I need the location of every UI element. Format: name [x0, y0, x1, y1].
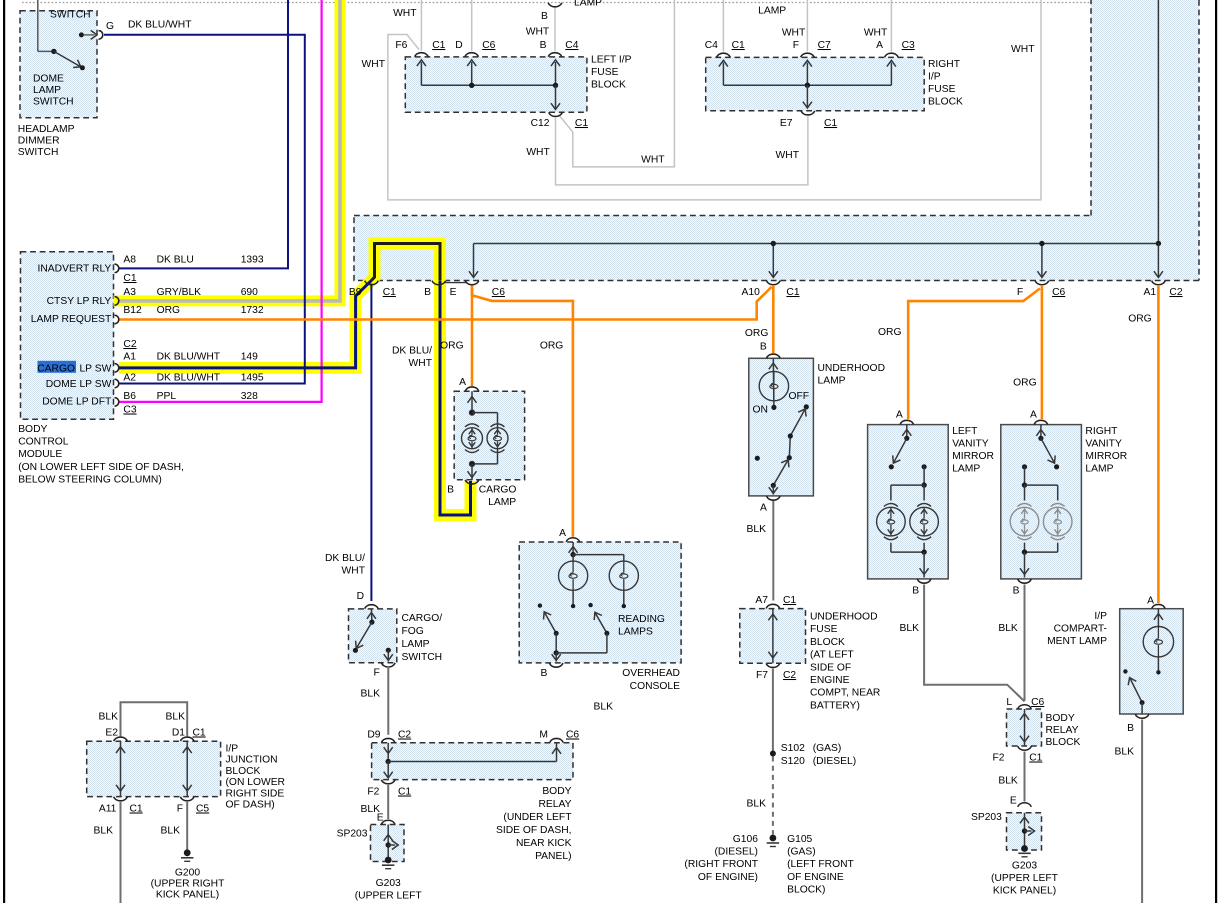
wire BLK left vanity B to body relay block	[924, 585, 1024, 702]
SP203 splice box left	[371, 825, 405, 862]
body relay internals	[384, 743, 561, 778]
I/P compartment lamp internals	[1123, 609, 1163, 714]
svg-text:ORG: ORG	[745, 328, 768, 339]
svg-text:A1: A1	[123, 352, 136, 363]
label OVERHEAD CONSOLE	[622, 668, 680, 692]
svg-text:E: E	[1010, 796, 1017, 807]
svg-text:LAMP: LAMP	[33, 85, 61, 96]
svg-text:A: A	[760, 503, 767, 514]
underhood fuse block internals	[768, 609, 777, 664]
pin D of cargo/fog lamp switch	[357, 591, 379, 609]
svg-text:CONSOLE: CONSOLE	[630, 681, 680, 692]
pin C4 of right fuse block	[717, 53, 731, 57]
SP203 left splice internals	[384, 825, 399, 861]
label UNDERHOOD FUSE BLOCK location	[810, 612, 880, 712]
svg-text:INADVERT RLY: INADVERT RLY	[37, 264, 111, 275]
svg-text:ORG: ORG	[878, 327, 901, 338]
pin A of cargo lamp	[459, 377, 479, 391]
svg-text:SP203: SP203	[971, 812, 1002, 823]
label RIGHT VANITY MIRROR LAMP	[1085, 426, 1127, 475]
svg-text:E: E	[450, 287, 457, 298]
underhood fuse block box	[740, 609, 806, 664]
body relay block internals	[1020, 709, 1029, 746]
svg-text:I/P: I/P	[1094, 611, 1107, 622]
labels I/P harness pins	[349, 287, 1183, 298]
lamp bulb right vanity mirror lamp 2	[1043, 504, 1072, 540]
wire BLK junction block A11 down (off page)	[120, 802, 122, 903]
highlight CARGO lamp circuit (BCM to B9)	[119, 280, 372, 368]
svg-text:ORG: ORG	[440, 341, 463, 352]
svg-text:B12: B12	[123, 305, 142, 316]
svg-text:FOG: FOG	[402, 626, 424, 637]
svg-text:BODY: BODY	[542, 786, 571, 797]
wire DK BLU/WHT 1495 dome lamp switch G to BCM A2	[104, 35, 305, 384]
svg-text:DIMMER: DIMMER	[18, 136, 60, 147]
svg-text:B6: B6	[123, 391, 136, 402]
wire WHT to left fuse block D (from above)	[471, 0, 473, 51]
svg-text:LAMPS: LAMPS	[618, 627, 653, 638]
label BODY RELAY BLOCK	[1046, 713, 1081, 748]
svg-text:D1: D1	[172, 728, 185, 739]
svg-text:LAMP: LAMP	[1085, 464, 1113, 475]
svg-text:BLOCK: BLOCK	[810, 637, 845, 648]
svg-text:F2: F2	[367, 787, 379, 798]
wire WHT to right fuse block F (from above)	[806, 0, 808, 52]
label G105 (GAS) (LEFT FRONT OF ENGINE BLOCK)	[787, 834, 854, 895]
svg-text:BELOW STEERING COLUMN): BELOW STEERING COLUMN)	[18, 474, 162, 485]
svg-text:C6: C6	[1031, 697, 1044, 708]
svg-text:BLK: BLK	[361, 689, 381, 700]
svg-text:A: A	[896, 410, 903, 421]
svg-text:C1: C1	[432, 40, 445, 51]
svg-text:WHT: WHT	[864, 28, 888, 39]
pin A11 of I/P junction block	[99, 797, 143, 815]
pin A of right fuse block	[885, 53, 899, 57]
pin E of SP203 right	[1010, 796, 1031, 807]
svg-text:L: L	[1006, 697, 1012, 708]
svg-text:FUSE: FUSE	[591, 67, 619, 78]
svg-text:RELAY: RELAY	[538, 799, 571, 810]
svg-text:B: B	[540, 40, 547, 51]
svg-text:M: M	[539, 730, 548, 741]
svg-text:BLOCK): BLOCK)	[787, 884, 825, 895]
svg-text:RELAY: RELAY	[1046, 725, 1079, 736]
svg-text:E: E	[377, 813, 384, 824]
pin E of SP203 left	[377, 813, 395, 825]
svg-text:C1: C1	[783, 595, 796, 606]
svg-text:UNDERHOOD: UNDERHOOD	[818, 363, 886, 374]
svg-text:1393: 1393	[241, 255, 264, 266]
ground G106/G105	[767, 835, 779, 847]
pin C12 of left fuse block	[549, 112, 563, 116]
svg-text:I/P: I/P	[226, 744, 239, 755]
svg-text:(ON LOWER: (ON LOWER	[226, 777, 286, 788]
svg-text:C1: C1	[193, 728, 206, 739]
svg-text:WHT: WHT	[1011, 44, 1035, 55]
pin A7 of underhood fuse block	[755, 595, 796, 608]
svg-text:DOME LP SW: DOME LP SW	[46, 379, 112, 390]
labels left fuse block pins	[395, 40, 588, 129]
pin A10 of I/P harness	[767, 281, 781, 285]
wire BLK underhood fuse block F7 to splice	[772, 669, 774, 754]
wire BLK underhood lamp A to fuse block A7	[772, 501, 774, 601]
svg-text:OFF: OFF	[789, 391, 810, 402]
svg-text:A11: A11	[99, 804, 117, 815]
I/P junction block box	[87, 741, 221, 796]
svg-text:F6: F6	[395, 40, 407, 51]
svg-text:LAMP: LAMP	[952, 464, 980, 475]
svg-text:BODY: BODY	[18, 424, 47, 435]
svg-text:F: F	[793, 40, 799, 51]
svg-text:SWITCH: SWITCH	[402, 652, 443, 663]
svg-text:C5: C5	[196, 804, 209, 815]
svg-text:D: D	[455, 40, 462, 51]
pin A of right vanity mirror lamp	[1030, 410, 1048, 425]
svg-text:C6: C6	[492, 287, 505, 298]
label DK BLU/WHT (B9 drop)	[325, 553, 366, 577]
wire BLK I/P compartment lamp B down	[1141, 720, 1143, 903]
label RIGHT I/P FUSE BLOCK	[928, 59, 963, 108]
svg-text:C1: C1	[1029, 753, 1042, 764]
wire WHT to left fuse block F6 (from above)	[420, 0, 422, 51]
svg-text:A8: A8	[123, 255, 136, 266]
svg-text:(UNDER LEFT: (UNDER LEFT	[503, 812, 572, 823]
svg-text:WHT: WHT	[342, 566, 366, 577]
lamp bulb underhood	[759, 371, 788, 400]
svg-text:BLK: BLK	[998, 623, 1018, 634]
label LEFT I/P FUSE BLOCK	[591, 55, 632, 91]
wire ORG F branch to left vanity lamp A	[908, 289, 1040, 420]
svg-text:HEADLAMP: HEADLAMP	[18, 124, 75, 135]
label CARGO/FOG LAMP SWITCH	[402, 613, 443, 663]
wire ORG harness E to cargo lamp A	[471, 286, 474, 387]
reading lamps internals	[538, 542, 626, 662]
svg-text:MIRROR: MIRROR	[1085, 451, 1127, 462]
pin F2 of body relay	[367, 780, 411, 798]
svg-text:C3: C3	[123, 405, 136, 416]
pin B of cargo lamp	[447, 480, 479, 496]
svg-text:A2: A2	[123, 373, 136, 384]
wire PPL 328 DOME LP DFT	[119, 0, 322, 402]
pin F6 of left fuse block	[415, 53, 429, 57]
svg-text:S102: S102	[781, 743, 805, 754]
svg-text:G105: G105	[787, 834, 812, 845]
svg-text:E7: E7	[780, 118, 793, 129]
svg-text:RIGHT SIDE: RIGHT SIDE	[226, 788, 285, 799]
label UNDERHOOD LAMP	[818, 363, 886, 387]
svg-text:ORG: ORG	[1013, 378, 1036, 389]
ground G203 (right branch)	[991, 845, 1059, 896]
svg-text:(ON LOWER LEFT SIDE OF DASH,: (ON LOWER LEFT SIDE OF DASH,	[18, 462, 184, 473]
svg-text:PANEL): PANEL)	[535, 851, 571, 862]
wire DK BLU/WHT harness B to cargo lamp B	[440, 281, 471, 515]
underhood lamp internals	[755, 358, 809, 494]
right I/P fuse block internals	[719, 60, 896, 108]
left vanity mirror lamp internals	[889, 425, 929, 578]
svg-text:F: F	[374, 668, 380, 679]
cargo/fog lamp switch box	[349, 609, 397, 663]
I/P compartment lamp box	[1120, 609, 1184, 714]
SP203 splice box right	[1007, 813, 1042, 850]
lamp bulb left vanity mirror lamp 2	[877, 504, 906, 540]
svg-text:328: 328	[241, 391, 258, 402]
svg-text:DK BLU/WHT: DK BLU/WHT	[128, 20, 192, 31]
svg-text:LAMP: LAMP	[402, 639, 430, 650]
svg-text:ORG: ORG	[1128, 314, 1151, 325]
svg-text:A: A	[876, 40, 883, 51]
svg-text:C6: C6	[566, 730, 579, 741]
labels BLK jumper	[99, 712, 186, 723]
pin B of left fuse block	[548, 53, 562, 57]
label G106 (DIESEL) (RIGHT FRONT OF ENGINE)	[684, 834, 758, 883]
wire BLK cargo/fog switch F to body relay D9	[387, 666, 389, 735]
svg-text:B: B	[447, 485, 454, 496]
wire ORG A1 to I/P compartment lamp A	[1157, 286, 1160, 603]
svg-text:LAMP: LAMP	[488, 497, 516, 508]
label READING LAMPS	[618, 614, 665, 638]
svg-text:WHT: WHT	[782, 28, 806, 39]
svg-text:BLK: BLK	[594, 702, 614, 713]
wire ORG harness E branch to overhead console A	[472, 288, 573, 537]
svg-text:NEAR KICK: NEAR KICK	[516, 838, 572, 849]
labels BCM signal names	[31, 264, 112, 408]
svg-text:D9: D9	[367, 730, 380, 741]
wire ORG A10 to underhood lamp B	[772, 286, 775, 353]
svg-text:C1: C1	[123, 273, 136, 284]
svg-text:G: G	[106, 21, 114, 32]
svg-text:B: B	[1013, 586, 1020, 597]
svg-text:BLK: BLK	[161, 826, 181, 837]
jumper loop E2 to D1	[121, 702, 188, 736]
wire WHT F6 routing loop to right side	[388, 0, 1041, 200]
svg-text:G200: G200	[175, 868, 200, 879]
wire CARGO circuit core inside harness	[372, 244, 441, 281]
svg-text:G203: G203	[1012, 861, 1037, 872]
svg-text:COMPART-: COMPART-	[1054, 624, 1107, 635]
svg-text:B: B	[1127, 723, 1134, 734]
svg-text:C1: C1	[824, 118, 837, 129]
svg-text:BLK: BLK	[166, 712, 186, 723]
underhood lamp box	[749, 358, 814, 496]
svg-text:OF ENGINE: OF ENGINE	[787, 872, 844, 883]
left I/P fuse block box	[405, 57, 587, 112]
svg-text:BLK: BLK	[99, 712, 119, 723]
headlamp dimmer switch box	[20, 11, 97, 118]
pin A of I/P compartment lamp	[1147, 596, 1165, 609]
svg-text:MIRROR: MIRROR	[952, 451, 994, 462]
pin F2 of body relay block	[992, 746, 1042, 763]
svg-text:(GAS): (GAS)	[813, 743, 842, 754]
highlight CTSY LP RLY circuit	[119, 0, 340, 301]
body control module box	[21, 252, 114, 419]
svg-text:DK BLU/WHT: DK BLU/WHT	[157, 352, 221, 363]
pin B of I/P harness	[432, 281, 446, 285]
svg-text:C3: C3	[902, 40, 915, 51]
svg-text:(DIESEL): (DIESEL)	[813, 756, 857, 767]
svg-text:WHT: WHT	[526, 147, 550, 158]
highlight CARGO circuit inside I/P harness	[372, 244, 471, 516]
pin A of underhood lamp	[760, 496, 780, 513]
pin D of left fuse block	[465, 53, 479, 57]
labels ON / OFF	[753, 391, 810, 416]
svg-text:C4: C4	[565, 40, 578, 51]
svg-text:F: F	[177, 804, 183, 815]
svg-text:OF DASH): OF DASH)	[226, 800, 275, 811]
svg-text:I/P: I/P	[928, 72, 941, 83]
wire BLK junction block F to G200	[186, 802, 188, 850]
svg-text:C1: C1	[786, 287, 799, 298]
svg-text:WHT: WHT	[641, 155, 665, 166]
ground G200	[151, 849, 226, 900]
svg-text:C2: C2	[783, 670, 796, 681]
svg-text:C4: C4	[705, 40, 718, 51]
wire DK BLU/WHT 149 CARGO LP SW core	[119, 280, 372, 368]
lamp bulb right vanity mirror lamp 1	[1010, 504, 1039, 540]
page right border	[1215, 0, 1217, 903]
svg-text:E2: E2	[105, 728, 118, 739]
svg-text:RIGHT: RIGHT	[1085, 426, 1118, 437]
svg-text:C7: C7	[818, 40, 831, 51]
body control module pins and labels	[115, 264, 119, 406]
svg-text:WHT: WHT	[362, 59, 386, 70]
svg-text:BLOCK: BLOCK	[226, 766, 261, 777]
pin B of overhead console	[541, 663, 563, 679]
svg-text:LP SW: LP SW	[79, 364, 111, 375]
svg-text:F2: F2	[992, 753, 1004, 764]
body relay box	[372, 743, 573, 780]
wire BLK body relay block F2 to SP203	[1024, 752, 1026, 802]
pin A1 of I/P harness	[1152, 281, 1166, 285]
svg-text:(UPPER LEFT: (UPPER LEFT	[991, 873, 1059, 884]
pin D9 of body relay	[367, 730, 411, 743]
lamp bulb reading 2	[609, 561, 638, 590]
lamp bulb reading 1	[559, 561, 588, 590]
pin A of left vanity mirror lamp	[896, 410, 914, 425]
pin F of cargo/fog lamp switch	[374, 663, 396, 679]
svg-text:LAMP: LAMP	[818, 376, 846, 387]
svg-text:SP203: SP203	[337, 829, 368, 840]
label I/P COMPARTMENT LAMP	[1047, 611, 1107, 647]
svg-text:SWITCH: SWITCH	[50, 10, 91, 21]
pin F of right fuse block	[801, 53, 815, 57]
svg-text:SWITCH: SWITCH	[33, 97, 74, 108]
svg-text:C1: C1	[130, 804, 143, 815]
svg-text:F7: F7	[756, 670, 768, 681]
label DK BLU/WHT (harness B drop)	[392, 346, 433, 370]
lamp bulb left vanity mirror lamp 1	[910, 504, 939, 540]
cargo lamp box	[454, 391, 524, 480]
svg-text:LEFT: LEFT	[952, 426, 978, 437]
svg-text:C2: C2	[398, 730, 411, 741]
labels BLK below junction block	[94, 826, 181, 837]
svg-text:B: B	[541, 11, 548, 22]
svg-text:D: D	[357, 591, 364, 602]
svg-text:B: B	[541, 668, 548, 679]
svg-text:C1: C1	[398, 787, 411, 798]
right vanity mirror lamp internals	[1020, 425, 1059, 578]
pin L of body relay block	[1006, 697, 1044, 709]
svg-text:A3: A3	[123, 287, 136, 298]
svg-text:DK BLU/: DK BLU/	[392, 346, 432, 357]
svg-text:LAMP REQUEST: LAMP REQUEST	[31, 314, 112, 325]
wire WHT to right fuse block A (from above)	[890, 0, 892, 52]
svg-text:GRY/BLK: GRY/BLK	[157, 287, 202, 298]
svg-text:VANITY: VANITY	[1085, 439, 1122, 450]
pin D1 of I/P junction block	[172, 728, 206, 742]
cargo lamp internals	[468, 391, 498, 480]
svg-text:BLK: BLK	[900, 623, 920, 634]
svg-text:B9: B9	[349, 287, 362, 298]
wire WHT C12 second branch loop	[559, 0, 675, 167]
svg-text:(RIGHT FRONT: (RIGHT FRONT	[684, 859, 758, 870]
label I/P JUNCTION BLOCK location	[226, 744, 286, 811]
svg-text:MENT LAMP: MENT LAMP	[1047, 636, 1107, 647]
wire WHT dome lamp B to left fuse block B	[554, 6, 556, 51]
pin M of body relay	[539, 730, 579, 743]
lamp bulb I/P compartment	[1143, 627, 1173, 657]
pin G of headlamp dimmer switch	[99, 21, 115, 39]
lamp bulb cargo 2	[487, 424, 508, 453]
svg-text:A: A	[459, 377, 466, 388]
svg-text:MODULE: MODULE	[18, 449, 62, 460]
splice S102/S120	[770, 743, 856, 767]
pin F of I/P harness	[1035, 281, 1049, 285]
svg-text:UNDERHOOD: UNDERHOOD	[810, 612, 878, 623]
pin E7 of right fuse block	[801, 111, 815, 115]
svg-text:CONTROL: CONTROL	[18, 437, 69, 448]
wire BLK splice to G106/G105 (dashed)	[772, 757, 774, 835]
pin B of I/P compartment lamp	[1127, 714, 1149, 734]
svg-text:FUSE: FUSE	[810, 624, 838, 635]
label DOME LAMP SWITCH	[33, 74, 74, 108]
svg-text:LAMP: LAMP	[574, 0, 602, 9]
wire BLK body relay F2 to SP203 left	[387, 785, 389, 819]
wire ORG 1732 LAMP REQUEST to A10	[119, 287, 772, 320]
svg-text:F: F	[1017, 287, 1023, 298]
svg-text:ON: ON	[753, 405, 768, 416]
svg-text:JUNCTION: JUNCTION	[226, 755, 278, 766]
svg-text:WHT: WHT	[776, 150, 800, 161]
I/P harness internal trunk wire	[469, 0, 1163, 278]
svg-text:CARGO/: CARGO/	[402, 613, 443, 624]
svg-text:OVERHEAD: OVERHEAD	[622, 668, 680, 679]
pin B of left vanity mirror lamp	[912, 579, 931, 596]
svg-text:B: B	[424, 287, 431, 298]
svg-text:BODY: BODY	[1046, 713, 1075, 724]
svg-text:C1: C1	[575, 118, 588, 129]
svg-text:WHT: WHT	[409, 358, 433, 369]
svg-text:BLK: BLK	[998, 776, 1018, 787]
svg-text:LAMP: LAMP	[758, 6, 786, 17]
wire ORG F to right vanity lamp A	[1041, 286, 1044, 419]
svg-text:(DIESEL): (DIESEL)	[715, 847, 759, 858]
svg-text:OF ENGINE): OF ENGINE)	[698, 872, 758, 883]
svg-text:BLK: BLK	[747, 799, 767, 810]
label LEFT VANITY MIRROR LAMP	[952, 426, 994, 475]
svg-text:VANITY: VANITY	[952, 439, 989, 450]
svg-text:PPL: PPL	[157, 391, 177, 402]
svg-text:BLK: BLK	[94, 826, 114, 837]
cropped box bottom edge (top dotted line)	[22, 2, 1091, 4]
pin E2 of I/P junction block	[105, 728, 127, 742]
ground G203 (left branch)	[355, 857, 423, 902]
svg-text:BLK: BLK	[747, 524, 767, 535]
left I/P fuse block internals	[417, 60, 560, 110]
svg-text:SIDE OF DASH,: SIDE OF DASH,	[496, 825, 572, 836]
svg-text:KICK PANEL): KICK PANEL)	[156, 890, 219, 901]
svg-text:149: 149	[241, 352, 258, 363]
svg-text:A: A	[1147, 596, 1154, 607]
